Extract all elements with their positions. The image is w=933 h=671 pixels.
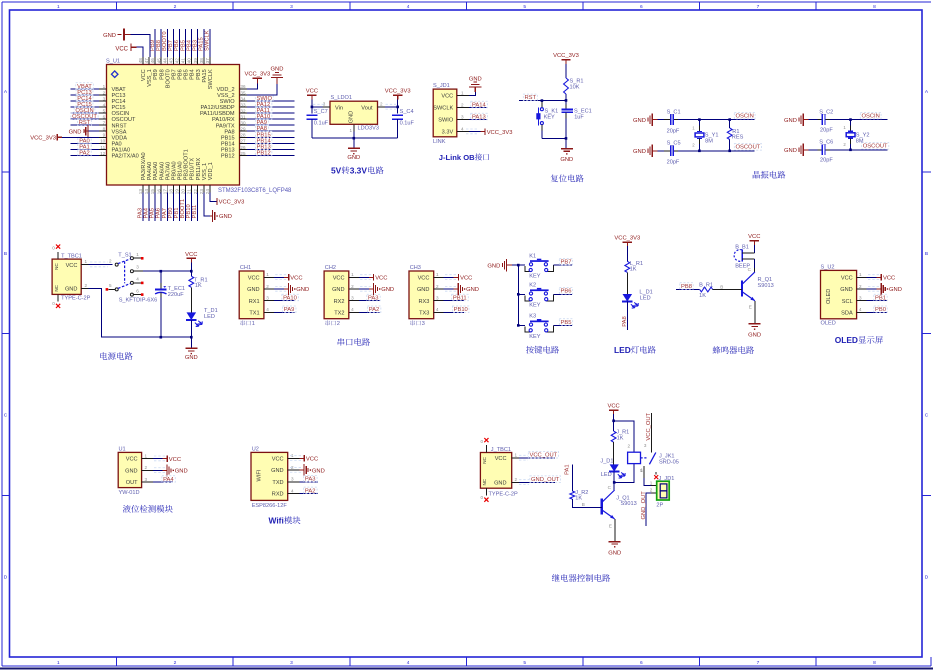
- svg-text:PB5: PB5: [561, 320, 572, 326]
- svg-text:PA14: PA14: [472, 102, 487, 108]
- power port VCC at CH3: [444, 274, 473, 282]
- svg-text:2: 2: [174, 660, 177, 666]
- svg-text:GND: GND: [103, 33, 116, 39]
- svg-text:B: B: [720, 284, 723, 289]
- wire: CH2 TX net PA2: [359, 306, 381, 313]
- svg-text:BOOT0: BOOT0: [162, 31, 168, 51]
- svg-text:220uF: 220uF: [168, 292, 184, 298]
- CH2 pin stubs and numbers: [349, 272, 359, 312]
- power port VCC_3V3 at MCU pin VDD_2: [245, 71, 271, 88]
- svg-text:KEY: KEY: [529, 334, 540, 340]
- svg-text:S_C7: S_C7: [314, 109, 328, 115]
- MCU U1 pin names: [112, 69, 236, 180]
- svg-text:PA5/A0: PA5/A0: [153, 162, 159, 181]
- title: buzzer circuit: [713, 346, 754, 354]
- title: Wifi module: [269, 516, 301, 526]
- power port GND at OLED: [867, 283, 902, 295]
- svg-text:1: 1: [85, 259, 88, 264]
- svg-text:21: 21: [187, 189, 192, 195]
- svg-text:B: B: [4, 251, 7, 257]
- svg-text:GND: GND: [487, 263, 500, 269]
- svg-text:LINK: LINK: [433, 139, 446, 145]
- svg-text:S_C5: S_C5: [667, 141, 681, 147]
- svg-text:BOOT0: BOOT0: [165, 69, 171, 88]
- svg-text:PB11: PB11: [453, 295, 467, 301]
- svg-text:GND: GND: [784, 148, 797, 154]
- svg-text:2: 2: [145, 465, 148, 470]
- svg-text:14: 14: [144, 189, 149, 195]
- svg-text:VCC: VCC: [460, 276, 472, 282]
- svg-text:6: 6: [136, 288, 139, 293]
- svg-text:3: 3: [290, 4, 293, 10]
- module U2 ESP8266-12F body: [251, 447, 288, 510]
- title: power supply circuit: [100, 352, 132, 360]
- svg-text:0: 0: [481, 495, 484, 500]
- relay J_JK1 SRD-05 coil: [628, 452, 679, 466]
- wire: CH1 RX net PA10: [274, 294, 299, 301]
- svg-text:34: 34: [240, 96, 246, 101]
- svg-text:SWCLK: SWCLK: [208, 69, 214, 89]
- wire: buzzer base net PB8: [676, 283, 700, 290]
- svg-text:8: 8: [873, 4, 876, 10]
- resistor S_R1 10K: [564, 78, 584, 94]
- resistor L_R1 1K: [625, 261, 643, 273]
- wire: VCC node to relay coil: [612, 420, 634, 453]
- svg-text:D: D: [4, 574, 8, 580]
- power port VCC at U1: [153, 455, 181, 463]
- capacitor S_C7 0.1uF: [306, 107, 328, 138]
- wires: MCU left port nets (VBAT..PA2): [71, 83, 100, 157]
- connector J_JD1 2P terminal: [656, 476, 674, 508]
- svg-text:12: 12: [100, 151, 106, 156]
- MCU U1 STM32F103C8T6_LQFP48 body: [106, 58, 292, 194]
- svg-text:PB7: PB7: [171, 69, 177, 80]
- svg-text:7: 7: [757, 4, 760, 10]
- svg-text:GND: GND: [271, 468, 283, 474]
- svg-text:9: 9: [103, 133, 106, 138]
- wires: MCU right port nets (SWIO..PB12): [247, 95, 295, 157]
- svg-text:19: 19: [175, 189, 180, 195]
- svg-text:K1: K1: [529, 253, 536, 259]
- svg-text:1: 1: [650, 480, 653, 485]
- ground GND at crystal C6: [784, 144, 808, 156]
- relay contact linkage: [641, 453, 656, 465]
- resistor J_R1 1K: [611, 421, 629, 442]
- label: serial port 2: [325, 320, 339, 327]
- svg-text:PB1: PB1: [174, 208, 180, 219]
- svg-text:29: 29: [240, 127, 246, 132]
- wire: OSCIN net (crystal 2): [830, 112, 888, 119]
- svg-text:PB6: PB6: [174, 40, 180, 51]
- wire: collector node to relay coil return: [614, 464, 643, 483]
- svg-text:PB10: PB10: [454, 307, 468, 313]
- power port VCC_3V3 at MCU pin VDDA: [30, 134, 99, 142]
- svg-text:GND: GND: [469, 76, 482, 82]
- wire: LDO Vout to VCC_3V3: [385, 104, 399, 109]
- svg-text:PB10: PB10: [186, 204, 192, 218]
- svg-text:RST: RST: [525, 95, 537, 101]
- svg-text:VCC_3V3: VCC_3V3: [30, 135, 56, 141]
- wire: switch output to VCC node: [143, 270, 193, 273]
- LED L_D1: [622, 272, 653, 308]
- svg-text:J_D1: J_D1: [600, 459, 613, 465]
- svg-text:PA3: PA3: [137, 208, 143, 219]
- svg-text:VCC_3V3: VCC_3V3: [614, 236, 640, 242]
- svg-text:VCC: VCC: [290, 276, 302, 282]
- svg-text:6: 6: [103, 115, 106, 120]
- svg-text:VCC: VCC: [66, 263, 78, 269]
- svg-text:PB7: PB7: [561, 260, 572, 266]
- power port VCC_3V3 LED block: [614, 236, 640, 262]
- svg-text:3: 3: [422, 321, 425, 327]
- svg-text:2: 2: [461, 102, 464, 107]
- svg-text:1: 1: [515, 453, 518, 458]
- svg-text:35: 35: [240, 90, 246, 95]
- no-connect pin bottom of T_TBC1: [52, 294, 60, 308]
- svg-text:VCC: VCC: [883, 276, 895, 282]
- svg-text:J-Link OB: J-Link OB: [439, 153, 475, 162]
- svg-text:PB5: PB5: [184, 69, 190, 80]
- svg-text:5: 5: [640, 468, 643, 473]
- svg-text:SWCLK: SWCLK: [205, 30, 211, 51]
- svg-text:SCL: SCL: [842, 299, 853, 305]
- svg-text:GND: GND: [748, 333, 761, 339]
- svg-text:VCC_OUT: VCC_OUT: [646, 412, 652, 440]
- svg-text:OSCOUT: OSCOUT: [736, 145, 761, 151]
- power port VCC at OLED: [867, 274, 896, 282]
- svg-text:37: 37: [205, 58, 210, 64]
- svg-text:VCC: VCC: [248, 275, 260, 281]
- wires: MCU bottom port nets (PA3..PB11): [137, 192, 198, 221]
- svg-text:VCC: VCC: [607, 404, 619, 410]
- svg-text:WIFI: WIFI: [257, 469, 263, 481]
- svg-text:20pF: 20pF: [667, 160, 680, 166]
- svg-text:2: 2: [650, 488, 653, 493]
- wire: relay drive net PA1: [564, 464, 572, 491]
- svg-text:S_U1: S_U1: [106, 58, 120, 64]
- slide switch T_S1 S_KFTDIP-6X6: [106, 252, 158, 304]
- wire: Q1 emitter to ground relay: [609, 519, 615, 541]
- wire: U1 OUT net PA4: [153, 476, 175, 483]
- svg-text:PB0/A0: PB0/A0: [171, 161, 177, 180]
- svg-text:3: 3: [290, 660, 293, 666]
- svg-text:1: 1: [266, 272, 269, 277]
- power port VCC at MCU pin VCC top: [115, 44, 143, 58]
- wire: OLED SDA net PB0: [867, 306, 888, 313]
- label: serial port 3: [410, 320, 424, 327]
- crystal S_Y1 8M: [692, 118, 718, 152]
- svg-text:OLED: OLED: [835, 335, 858, 345]
- svg-text:GND: GND: [271, 67, 284, 73]
- svg-text:PB11/RX: PB11/RX: [196, 157, 202, 180]
- svg-text:PB1/A0: PB1/A0: [178, 161, 184, 180]
- svg-text:1K: 1K: [617, 435, 624, 441]
- svg-text:6: 6: [640, 660, 643, 666]
- svg-text:5: 5: [103, 108, 106, 113]
- svg-text:2: 2: [266, 284, 269, 289]
- resistor T_R1 1K: [189, 271, 208, 289]
- capacitor S_C1 20pF: [657, 109, 680, 134]
- svg-text:23: 23: [199, 189, 204, 195]
- pushbutton K3 KEY: [518, 314, 572, 340]
- title: LED circuit: [614, 345, 656, 355]
- svg-text:VCC: VCC: [841, 275, 853, 281]
- svg-text:Wifi: Wifi: [269, 516, 284, 526]
- svg-text:1: 1: [103, 84, 106, 89]
- svg-text:GND: GND: [347, 155, 360, 161]
- svg-text:OSCOUT: OSCOUT: [863, 144, 888, 150]
- svg-text:2: 2: [85, 283, 88, 288]
- svg-text:LED: LED: [614, 345, 631, 355]
- svg-text:2: 2: [351, 284, 354, 289]
- svg-text:15: 15: [150, 189, 155, 195]
- svg-text:CH1: CH1: [240, 265, 251, 271]
- capacitor S_EC1 1uF electrolytic: [561, 101, 591, 139]
- svg-text:PB0: PB0: [875, 307, 886, 313]
- wire: CH3 TX net PB10: [444, 306, 469, 313]
- svg-text:S_LDO1: S_LDO1: [331, 95, 352, 101]
- svg-text:NC: NC: [54, 284, 59, 291]
- ground GND at crystal C5: [633, 145, 657, 157]
- svg-text:4: 4: [136, 277, 139, 282]
- svg-text:42: 42: [175, 58, 180, 64]
- title: liquid level detect module: [123, 505, 173, 513]
- ground GND power block: [185, 348, 198, 361]
- svg-text:20pF: 20pF: [820, 158, 833, 164]
- no-connect pin bottom of J_TBC1: [481, 488, 489, 502]
- svg-text:NC: NC: [482, 478, 487, 485]
- wire: U2 RXD net PA2: [300, 487, 319, 494]
- transistor R_Q1 S9013 NPN: [742, 272, 774, 301]
- svg-text:C: C: [925, 413, 929, 419]
- svg-text:3.3V: 3.3V: [350, 166, 368, 176]
- svg-text:U2: U2: [252, 447, 259, 453]
- wire: relay NO contact to J_JD1 pin1: [640, 466, 657, 486]
- svg-text:5: 5: [109, 283, 112, 288]
- svg-text:GND_OUT: GND_OUT: [531, 477, 560, 483]
- svg-text:B: B: [925, 251, 928, 257]
- svg-text:2: 2: [337, 321, 340, 327]
- ground GND buzzer: [748, 324, 761, 339]
- svg-text:1: 1: [349, 128, 352, 133]
- svg-text:NC: NC: [482, 456, 487, 463]
- wire: U2 TXD net PA3: [300, 475, 319, 482]
- capacitor S_C5 20pF: [657, 141, 680, 166]
- svg-text:0: 0: [52, 301, 55, 306]
- CH3 pin stubs and numbers: [434, 272, 444, 312]
- svg-text:KEY: KEY: [544, 115, 555, 121]
- svg-text:26: 26: [240, 145, 246, 150]
- svg-text:33: 33: [240, 102, 246, 107]
- svg-text:4: 4: [351, 307, 354, 312]
- svg-text:RST: RST: [79, 120, 91, 126]
- pushbutton K2 KEY: [518, 283, 572, 309]
- svg-text:PB0: PB0: [168, 208, 174, 219]
- svg-text:GND: GND: [219, 214, 232, 220]
- svg-text:GND: GND: [175, 469, 188, 475]
- svg-text:32: 32: [240, 108, 246, 113]
- svg-text:8M: 8M: [705, 139, 713, 145]
- resistor R1 feedback crystal: [727, 118, 743, 152]
- svg-text:3: 3: [461, 114, 464, 119]
- svg-text:43: 43: [168, 58, 173, 64]
- pushbutton S_K1 KEY: [536, 99, 558, 138]
- capacitor S_C2 20pF: [808, 109, 833, 133]
- svg-text:STM32F103C8T6_LQFP48: STM32F103C8T6_LQFP48: [218, 188, 292, 194]
- wire: T_TBC1 VCC to switch: [81, 259, 112, 267]
- label: serial port 1: [241, 320, 255, 327]
- svg-text:1K: 1K: [630, 267, 637, 273]
- svg-text:Vin: Vin: [335, 106, 343, 112]
- wire: CH3 RX net PB11: [444, 294, 469, 301]
- wire: Q1 emitter to ground: [749, 301, 755, 324]
- svg-text:LED: LED: [601, 472, 612, 478]
- svg-text:PA6/A0: PA6/A0: [159, 162, 165, 181]
- svg-text:PA9: PA9: [284, 307, 295, 313]
- svg-text:PB2/BOOT1: PB2/BOOT1: [184, 149, 190, 180]
- svg-text:C: C: [4, 413, 8, 419]
- buzzer B_B1 BEEP: [734, 244, 754, 269]
- power port VCC at CH2: [359, 274, 388, 282]
- svg-text:SDA: SDA: [841, 311, 853, 317]
- svg-text:SWCLK: SWCLK: [433, 106, 453, 112]
- svg-text:3.3V: 3.3V: [442, 130, 454, 136]
- wire+ground GND at J-Link pin 1: [469, 76, 482, 95]
- svg-text:GND: GND: [560, 157, 573, 163]
- svg-text:J_JK1: J_JK1: [659, 454, 675, 460]
- svg-text:1: 1: [57, 660, 60, 666]
- wire: LED cathode to collector node: [608, 472, 616, 490]
- transistor J_Q1 S9013 NPN: [602, 490, 637, 519]
- svg-text:VDD_1: VDD_1: [208, 162, 214, 180]
- wires: MCU top port nets (PB9..SWCLK): [150, 29, 211, 57]
- svg-text:VCC: VCC: [418, 275, 430, 281]
- svg-text:GND: GND: [185, 355, 198, 361]
- ground GND at crystal C2: [784, 113, 808, 125]
- svg-text:VSS_1: VSS_1: [202, 163, 208, 180]
- svg-text:5: 5: [523, 4, 526, 10]
- svg-text:0.1uF: 0.1uF: [314, 120, 329, 126]
- svg-text:GND: GND: [633, 118, 646, 124]
- title: OLED display: [835, 335, 883, 345]
- svg-text:VCC: VCC: [272, 456, 284, 462]
- power port GND at MCU pin VSSA: [69, 125, 99, 137]
- svg-text:PB1: PB1: [875, 295, 886, 301]
- ground GND reset: [560, 149, 573, 164]
- svg-text:1: 1: [436, 272, 439, 277]
- no-connect pin top of T_TBC1: [52, 245, 60, 260]
- svg-text:PB5: PB5: [180, 40, 186, 51]
- svg-text:VSS_1: VSS_1: [147, 69, 153, 86]
- svg-text:PB3: PB3: [193, 40, 199, 51]
- svg-text:VCC: VCC: [185, 252, 197, 258]
- svg-text:39: 39: [193, 58, 198, 64]
- svg-text:OSCIN: OSCIN: [862, 114, 880, 120]
- svg-text:RXD: RXD: [272, 492, 284, 498]
- svg-text:RX1: RX1: [249, 299, 260, 305]
- svg-text:GND: GND: [840, 287, 852, 293]
- U2 pin stubs and numbers: [288, 453, 300, 493]
- svg-text:GND: GND: [349, 111, 355, 123]
- no-connect pin top of J_TBC1: [481, 438, 489, 453]
- svg-text:4: 4: [266, 307, 269, 312]
- wire: OSCOUT net (crystal 1): [678, 144, 761, 151]
- svg-text:PA8: PA8: [622, 316, 628, 327]
- wire: J_JD1 pin2 GND_OUT: [641, 488, 657, 526]
- svg-text:20pF: 20pF: [820, 127, 833, 133]
- svg-text:0: 0: [481, 439, 484, 444]
- svg-text:24: 24: [205, 189, 210, 195]
- title: 5V to 3.3V circuit: [331, 166, 384, 176]
- svg-text:S_C2: S_C2: [819, 109, 833, 115]
- wire: J_TBC1 GND_OUT net: [512, 476, 561, 485]
- svg-text:3: 3: [644, 443, 647, 448]
- svg-text:ESP8266-12F: ESP8266-12F: [252, 503, 288, 509]
- svg-text:GND: GND: [784, 118, 797, 124]
- capacitor T_EC1 220uF electrolytic: [155, 271, 185, 338]
- svg-text:VCC_3V3: VCC_3V3: [553, 53, 579, 59]
- svg-text:36: 36: [240, 84, 246, 89]
- svg-text:GND: GND: [65, 287, 77, 293]
- svg-text:PB8: PB8: [681, 284, 692, 290]
- svg-text:7: 7: [103, 121, 106, 126]
- svg-text:J_TBC1: J_TBC1: [491, 447, 511, 453]
- power port VCC_3V3 at MCU pin VDD_1 bottom: [210, 192, 244, 205]
- svg-text:PA2: PA2: [369, 307, 380, 313]
- svg-text:1: 1: [145, 453, 148, 458]
- capacitor S_C6 20pF: [808, 140, 833, 164]
- svg-text:PA7: PA7: [162, 208, 168, 219]
- svg-text:4: 4: [461, 126, 464, 131]
- svg-text:VCC: VCC: [306, 89, 318, 95]
- svg-text:28: 28: [240, 133, 246, 138]
- svg-text:1: 1: [461, 90, 464, 95]
- svg-text:B: B: [582, 502, 585, 507]
- svg-text:D: D: [925, 574, 929, 580]
- resistor B_R1 1K: [699, 282, 742, 299]
- svg-text:GND: GND: [312, 468, 325, 474]
- svg-text:OSCIN: OSCIN: [736, 114, 754, 120]
- power port GND at MCU pin VSS_1 bottom: [204, 192, 232, 222]
- svg-text:VCC: VCC: [115, 47, 128, 53]
- svg-text:NC: NC: [54, 263, 59, 270]
- power port GND at CH3: [444, 283, 479, 295]
- svg-text:3: 3: [291, 477, 294, 482]
- title: relay control circuit: [552, 574, 610, 582]
- power port VCC_3V3 above reset: [553, 53, 579, 78]
- svg-text:RX3: RX3: [419, 299, 430, 305]
- svg-text:K2: K2: [529, 283, 536, 289]
- wire: LED cathode net PA8: [622, 302, 628, 330]
- svg-text:PB4: PB4: [186, 39, 192, 51]
- power port VCC above LDO input: [306, 89, 318, 107]
- svg-text:VCC: VCC: [169, 457, 181, 463]
- svg-text:CH2: CH2: [325, 265, 336, 271]
- power port VCC relay: [607, 404, 619, 421]
- svg-text:1: 1: [57, 4, 60, 10]
- svg-text:PA15: PA15: [199, 37, 205, 51]
- wire: LDO ground rail: [312, 132, 398, 148]
- wire: VCC to LDO Vin: [311, 104, 325, 109]
- svg-text:3: 3: [436, 296, 439, 301]
- wire: T_TBC1 GND to ground rail: [81, 283, 191, 337]
- svg-text:20: 20: [181, 189, 186, 195]
- svg-text:PB8: PB8: [159, 69, 165, 80]
- svg-text:GND: GND: [247, 287, 259, 293]
- svg-text:KEY: KEY: [529, 303, 540, 309]
- wire: OSCIN net (crystal 1): [678, 112, 755, 119]
- title: crystal circuit: [753, 171, 786, 179]
